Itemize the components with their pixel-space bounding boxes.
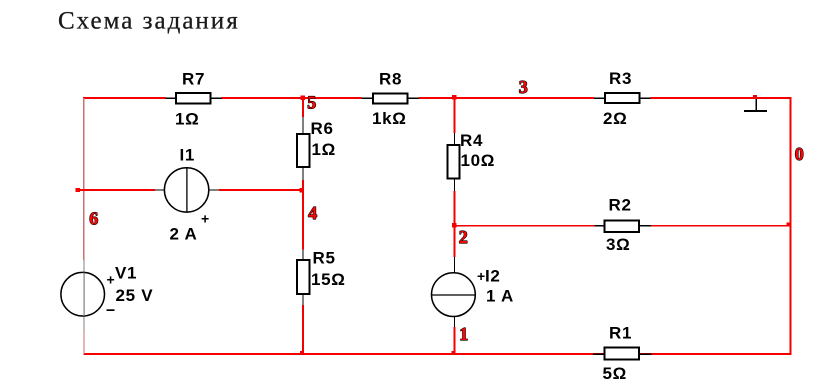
svg-text:R7: R7 (182, 70, 205, 89)
ground (744, 99, 767, 112)
resistor R3 (603, 69, 640, 128)
wire bottom rail (84, 353, 792, 355)
node 2 (459, 227, 468, 247)
lead I1 left (155, 189, 165, 190)
lead R1 right (639, 353, 652, 355)
wire left rail thin (node 6 upper) (83, 98, 84, 260)
resistor R2 (605, 196, 640, 255)
svg-text:3: 3 (519, 77, 528, 97)
svg-text:Схема задания: Схема задания (58, 8, 240, 35)
wire node 6 branch right of I1 (219, 189, 304, 191)
svg-text:4: 4 (308, 203, 317, 223)
wire right rail (node 0) (790, 97, 792, 355)
wire x455 vertical node2 to I2 (454, 226, 456, 257)
node 1 (459, 324, 468, 344)
svg-text:6: 6 (89, 209, 98, 229)
svg-text:25 V: 25 V (116, 286, 154, 305)
svg-text:I2: I2 (485, 267, 501, 286)
wire node 2 branch right of R2 (651, 225, 790, 227)
lead I2 top (454, 257, 455, 273)
junction bottom rail x302 (300, 351, 304, 355)
wire top rail left segment (83, 97, 166, 99)
lead R2 left (595, 225, 605, 226)
wire top rail between R8 and R3 (node 3) (419, 97, 594, 99)
svg-text:+: + (477, 268, 485, 284)
resistor R8 (372, 70, 408, 129)
lead R4 top (454, 133, 455, 145)
junction node 5 (301, 96, 306, 101)
node 4 (308, 203, 317, 223)
svg-text:3Ω: 3Ω (606, 235, 631, 254)
svg-text:5: 5 (307, 93, 316, 113)
lead R7 right (211, 97, 223, 99)
lead R7 left (166, 97, 177, 99)
lead R5 top (302, 250, 303, 261)
svg-text:2Ω: 2Ω (603, 109, 628, 128)
resistor R5 (297, 249, 346, 295)
lead R8 left (362, 97, 374, 99)
lead R4 bottom (454, 179, 455, 192)
lead R6 top (302, 117, 303, 134)
wire x455 vertical I2 to bottom rail (454, 327, 456, 354)
svg-text:1 A: 1 A (486, 287, 514, 306)
wire middle vertical node5 to R6 (302, 98, 304, 117)
junction ground tick (753, 95, 757, 99)
lead R5 bottom (302, 294, 303, 305)
lead I2 bottom (454, 317, 455, 328)
lead R3 left (594, 97, 605, 99)
svg-text:R8: R8 (379, 70, 402, 89)
node 0 (795, 144, 804, 164)
svg-text:+: + (107, 272, 115, 288)
wire top rail right of R3 (651, 97, 792, 99)
current source I2 (432, 267, 514, 317)
lead R8 right (408, 97, 420, 99)
voltage source V1 (61, 264, 153, 317)
junction bottom rail x453 (451, 351, 455, 355)
svg-text:V1: V1 (115, 264, 137, 283)
lead R1 left (593, 353, 605, 355)
svg-text:1kΩ: 1kΩ (372, 109, 407, 128)
junction node 2 (452, 223, 457, 227)
resistor R6 (297, 119, 336, 167)
svg-text:+: + (201, 211, 209, 227)
svg-text:R1: R1 (609, 324, 632, 343)
resistor R4 (448, 131, 496, 179)
wire node 2 branch left of R2 (455, 225, 595, 227)
lead R2 right (639, 225, 651, 226)
junction node 2 at right rail (786, 222, 790, 226)
wire top rail between R7 and R8 (222, 97, 362, 99)
svg-text:10Ω: 10Ω (461, 151, 496, 170)
svg-text:I1: I1 (180, 146, 196, 165)
wire middle vertical R6 to node 4 (302, 180, 304, 191)
svg-text:R4: R4 (460, 131, 483, 150)
svg-text:1Ω: 1Ω (175, 110, 200, 129)
node 3 (519, 77, 528, 97)
wire node 6 branch left stub (76, 189, 155, 191)
wire x455 vertical top to R4 (454, 98, 456, 133)
resistor R1 (603, 324, 640, 384)
wire x455 vertical R4 to node 2 (454, 191, 456, 226)
lead R6 bottom (302, 167, 303, 180)
lead R3 right (640, 97, 651, 99)
svg-text:2: 2 (459, 227, 468, 247)
svg-text:1: 1 (459, 324, 468, 344)
svg-text:2 A: 2 A (170, 225, 198, 244)
svg-text:R2: R2 (609, 196, 632, 215)
lead V1 bottom (84, 316, 85, 331)
junction node 6 stub end (76, 188, 80, 192)
svg-text:5Ω: 5Ω (603, 364, 628, 383)
svg-text:0: 0 (795, 144, 804, 164)
lead V1 top (84, 260, 85, 273)
svg-text:15Ω: 15Ω (311, 270, 346, 289)
svg-text:R6: R6 (311, 119, 334, 138)
junction node 4 (300, 188, 305, 193)
wire left rail below V1 (84, 331, 85, 354)
lead I1 right (209, 189, 220, 190)
junction top of R4 branch (452, 95, 457, 99)
node 5 (307, 93, 316, 113)
svg-text:1Ω: 1Ω (312, 140, 337, 159)
node 6 (89, 209, 98, 229)
wire middle vertical R5 to bottom rail (302, 305, 304, 354)
resistor R7 (175, 70, 211, 129)
svg-text:R3: R3 (609, 69, 632, 88)
wire middle vertical node4 to R5 (302, 191, 304, 250)
current source I1 (164, 146, 209, 244)
svg-text:R5: R5 (313, 249, 336, 268)
